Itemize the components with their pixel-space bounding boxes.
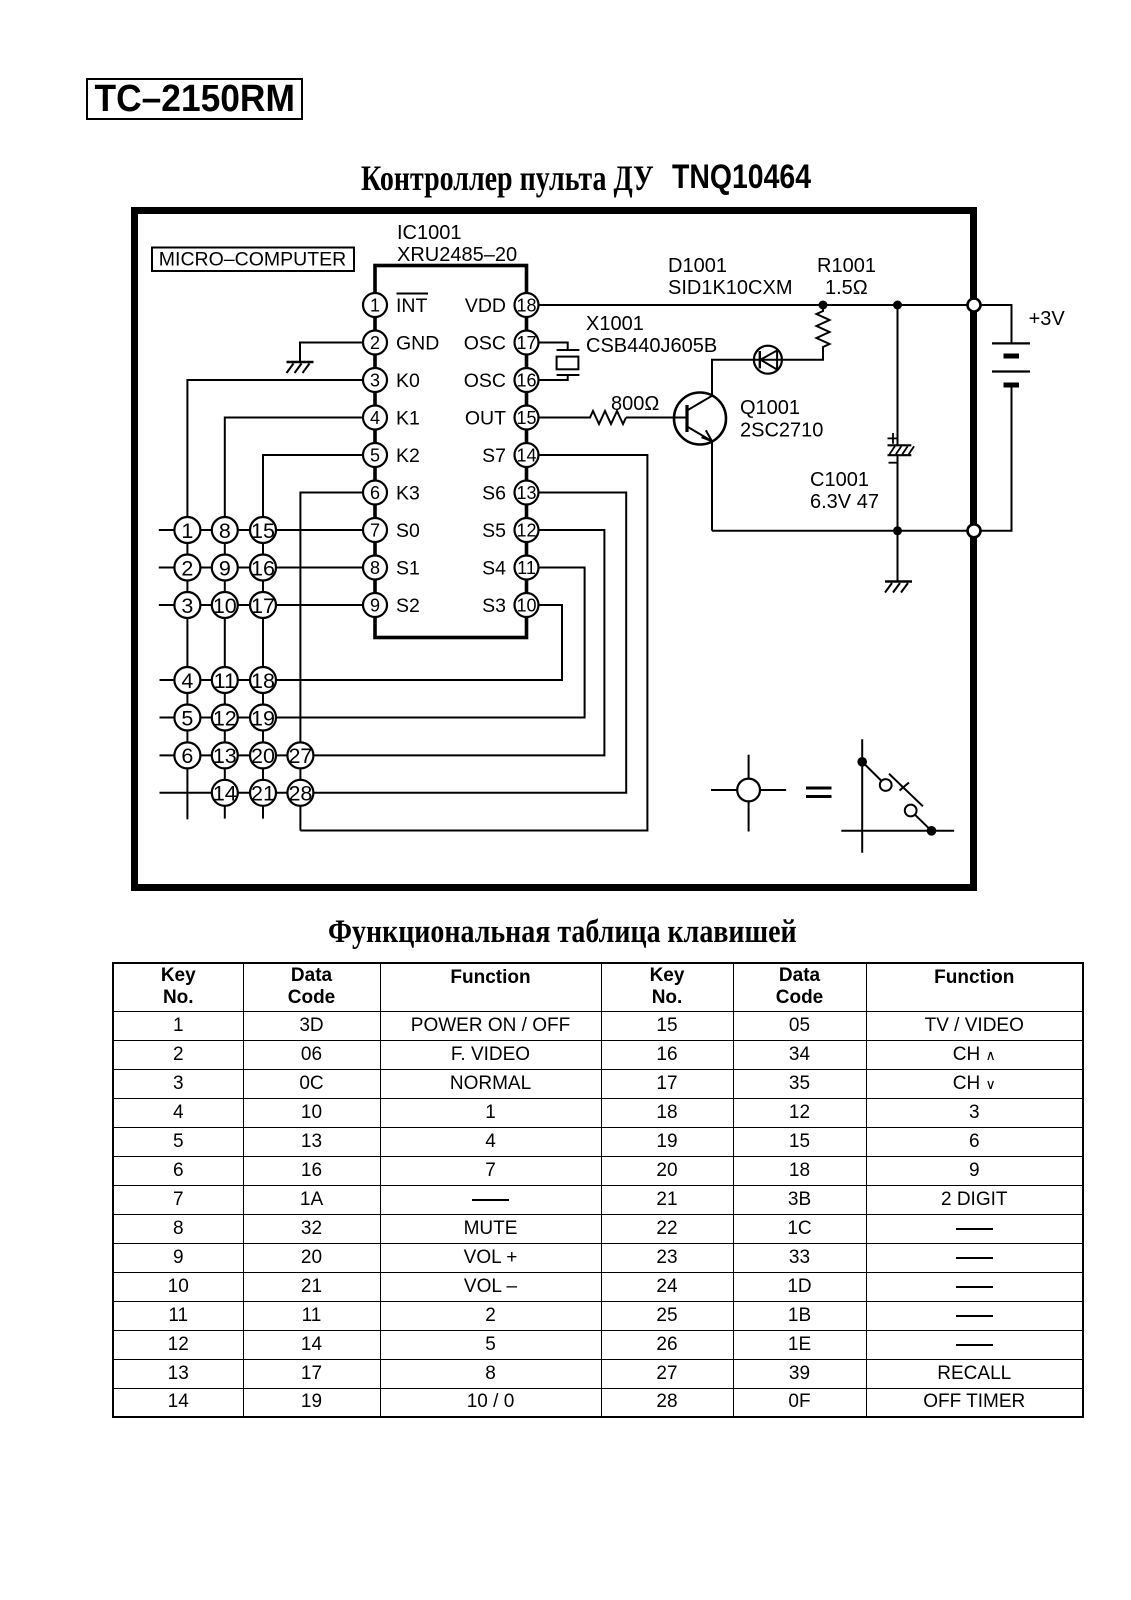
key 2 (174, 555, 200, 581)
svg-text:27: 27 (288, 744, 312, 768)
schematic outer border (135, 211, 974, 888)
junction node bottom rail (893, 526, 902, 535)
svg-text:12: 12 (213, 706, 237, 730)
wire pin2 GND to ground (300, 343, 364, 362)
pin label OUT (465, 408, 506, 430)
transistor Q1001 (674, 393, 726, 445)
svg-text:11: 11 (214, 669, 236, 693)
wire Q1001 emitter down (711, 441, 713, 531)
label IC1001 XRU2485-20 (397, 222, 517, 266)
key 14 (212, 780, 238, 806)
key 10 (212, 592, 238, 618)
ground bottom (885, 582, 912, 593)
svg-text:OSC: OSC (464, 333, 506, 355)
pin 10 (S3) (515, 593, 539, 617)
pin label S7 (482, 445, 506, 467)
wire S3 key row 4 (160, 605, 563, 680)
svg-text:1.5Ω: 1.5Ω (825, 277, 868, 299)
pin label OSC (464, 333, 506, 355)
wire S0 key row 1 (159, 529, 364, 531)
wire pin16 to X1001 (539, 375, 568, 380)
MICRO-COMPUTER label box (152, 248, 354, 272)
page title (361, 157, 738, 199)
wire S6 key row 7 (160, 493, 627, 793)
label Q1001 2SC2710 (740, 397, 823, 442)
pin label K3 (396, 483, 420, 505)
svg-text:5: 5 (370, 446, 380, 466)
svg-text:5: 5 (181, 706, 193, 730)
svg-text:10: 10 (516, 596, 536, 616)
model number box TC-2150RM (86, 78, 303, 120)
svg-text:3: 3 (370, 371, 380, 391)
svg-text:X1001: X1001 (586, 313, 644, 335)
key 18 (250, 667, 276, 693)
key 3 (174, 592, 200, 618)
svg-text:S5: S5 (482, 520, 506, 542)
key 17 (250, 592, 276, 618)
key 4 (174, 667, 200, 693)
pin 11 (S4) (515, 556, 539, 580)
label X1001 CSB440J605B (586, 313, 717, 357)
key 6 (174, 742, 200, 768)
svg-text:S7: S7 (482, 445, 506, 467)
svg-text:1: 1 (370, 296, 380, 316)
svg-text:8: 8 (219, 519, 231, 543)
wire S7 bottom row (300, 455, 647, 831)
svg-text:13: 13 (516, 483, 536, 503)
wire K0 / key column 1 (187, 380, 364, 819)
pin label S6 (482, 483, 506, 505)
key 20 (250, 742, 276, 768)
legend switch: S line (841, 830, 954, 832)
pin label K0 (396, 370, 420, 392)
pin label S5 (482, 520, 506, 542)
svg-text:17: 17 (251, 594, 275, 618)
svg-text:C1001: C1001 (810, 469, 869, 491)
pin label S1 (396, 558, 420, 580)
key 13 (212, 742, 238, 768)
pin 13 (S6) (515, 481, 539, 505)
key 15 (250, 517, 276, 543)
svg-text:2: 2 (370, 333, 380, 353)
wire C1001 bottom lead (897, 455, 899, 531)
svg-text:8: 8 (370, 558, 380, 578)
pin 12 (S5) (515, 518, 539, 542)
IC IC1001 body (375, 266, 527, 638)
svg-text:14: 14 (516, 446, 536, 466)
svg-text:28: 28 (288, 782, 312, 806)
wire S4 key row 5 (160, 568, 585, 718)
svg-text:CSB440J605B: CSB440J605B (586, 335, 717, 357)
capacitor C1001 (888, 433, 915, 463)
wire bottom rail (712, 530, 968, 532)
svg-text:19: 19 (251, 706, 275, 730)
table heading (328, 914, 881, 951)
svg-text:SID1K10CXM: SID1K10CXM (668, 277, 793, 299)
wire terminal to battery plus (981, 305, 1012, 342)
key 11 (212, 667, 238, 693)
svg-text:K1: K1 (396, 408, 420, 430)
svg-text:K3: K3 (396, 483, 420, 505)
svg-text:21: 21 (251, 782, 275, 806)
svg-text:15: 15 (516, 408, 536, 428)
label D1001 SID1K10CXM (668, 255, 793, 299)
terminal bottom right (968, 524, 981, 537)
key 1 (174, 517, 200, 543)
resistor R1001 (817, 305, 830, 348)
svg-text:D1001: D1001 (668, 255, 727, 277)
svg-text:6.3V 47: 6.3V 47 (810, 491, 879, 513)
pin label INT (396, 294, 428, 318)
pin 14 (S7) (515, 443, 539, 467)
svg-text:12: 12 (516, 521, 536, 541)
wire VDD rail pin18 to terminal (539, 304, 968, 306)
pin 5 (K2) (363, 443, 387, 467)
battery +3V (992, 343, 1030, 385)
svg-text:MICRO–COMPUTER: MICRO–COMPUTER (159, 249, 346, 271)
pin 4 (K1) (363, 406, 387, 430)
svg-text:15: 15 (251, 519, 275, 543)
svg-text:4: 4 (370, 408, 380, 428)
svg-text:2: 2 (181, 556, 193, 580)
wire 800 ohm to Q1001 base (626, 417, 674, 419)
svg-text:OUT: OUT (465, 408, 506, 430)
pin 2 (GND) (363, 331, 387, 355)
svg-text:R1001: R1001 (817, 255, 876, 277)
key 5 (174, 705, 200, 731)
key 16 (250, 555, 276, 581)
pin 16 (OSC) (515, 368, 539, 392)
svg-text:9: 9 (219, 556, 231, 580)
pin label VDD (465, 295, 506, 317)
wire battery minus to terminal (981, 388, 1012, 531)
legend key circle symbol (711, 755, 786, 832)
svg-text:K0: K0 (396, 370, 420, 392)
key 9 (212, 555, 238, 581)
pin label OSC (464, 370, 506, 392)
svg-text:6: 6 (181, 744, 193, 768)
svg-text:18: 18 (251, 669, 275, 693)
svg-text:+3V: +3V (1029, 308, 1066, 330)
wire R1001 to D1001 (782, 348, 823, 360)
key 27 (287, 742, 313, 768)
legend switch contacts (857, 757, 936, 836)
svg-text:10: 10 (213, 594, 237, 618)
function table (112, 962, 1084, 1418)
svg-text:9: 9 (370, 596, 380, 616)
pin label K1 (396, 408, 420, 430)
legend equals sign (806, 788, 832, 797)
svg-text:17: 17 (516, 333, 536, 353)
svg-text:7: 7 (370, 521, 380, 541)
pin label S0 (396, 520, 420, 542)
svg-text:11: 11 (517, 558, 536, 578)
wire K3 / key column 4 (300, 493, 364, 831)
junction node R1001 top (819, 301, 828, 310)
svg-text:S1: S1 (396, 558, 420, 580)
legend switch: K line (861, 739, 863, 853)
junction node C1001 top (893, 301, 902, 310)
key 8 (212, 517, 238, 543)
pin 6 (K3) (363, 481, 387, 505)
wire K1 / key column 2 (225, 418, 364, 819)
svg-text:K2: K2 (396, 445, 420, 467)
svg-text:1: 1 (181, 519, 193, 543)
svg-text:VDD: VDD (465, 295, 506, 317)
pin 3 (K0) (363, 368, 387, 392)
pin label GND (396, 333, 439, 355)
key 21 (250, 780, 276, 806)
key 28 (287, 780, 313, 806)
wire S1 key row 2 (159, 567, 364, 569)
pin 1 (INT) (363, 293, 387, 317)
pin 17 (OSC) (515, 331, 539, 355)
wire pin17 to X1001 (539, 343, 568, 351)
svg-text:GND: GND (396, 333, 439, 355)
wire S2 key row 3 (159, 604, 364, 606)
svg-text:16: 16 (251, 556, 275, 580)
svg-text:OSC: OSC (464, 370, 506, 392)
terminal top right (968, 299, 981, 312)
wire C1001 top lead (897, 305, 899, 445)
wire to bottom ground (897, 531, 899, 582)
svg-text:INT: INT (396, 295, 428, 317)
svg-text:S4: S4 (482, 558, 506, 580)
pin 8 (S1) (363, 556, 387, 580)
svg-text:S6: S6 (482, 483, 506, 505)
key 19 (250, 705, 276, 731)
resistor 800 ohm (588, 411, 627, 424)
svg-text:20: 20 (251, 744, 275, 768)
svg-text:S3: S3 (482, 595, 506, 617)
pin label S2 (396, 595, 420, 617)
ground near pin 2 (287, 362, 314, 373)
svg-text:S2: S2 (396, 595, 420, 617)
pin label S4 (482, 558, 506, 580)
svg-text:6: 6 (370, 483, 380, 503)
pin 18 (VDD) (515, 293, 539, 317)
wire K2 / key column 3 (263, 455, 364, 819)
svg-text:XRU2485–20: XRU2485–20 (397, 244, 517, 266)
pin label S3 (482, 595, 506, 617)
svg-text:4: 4 (181, 669, 193, 693)
wire S5 key row 6 (160, 530, 605, 755)
svg-text:14: 14 (213, 782, 237, 806)
svg-text:13: 13 (213, 744, 237, 768)
wire OUT pin15 to 800 ohm (539, 417, 588, 419)
svg-text:S0: S0 (396, 520, 420, 542)
crystal X1001 (557, 350, 580, 375)
label R1001 1.5 ohm (817, 255, 876, 299)
svg-text:IC1001: IC1001 (397, 222, 462, 244)
label C1001 6.3V 47 (810, 469, 879, 513)
svg-text:Q1001: Q1001 (740, 397, 800, 419)
LED D1001 (754, 346, 782, 374)
pin 9 (S2) (363, 593, 387, 617)
wire D1001 to Q1001 collector (712, 360, 754, 396)
pin 15 (OUT) (515, 406, 539, 430)
pin 7 (S0) (363, 518, 387, 542)
svg-text:3: 3 (181, 594, 193, 618)
svg-text:2SC2710: 2SC2710 (740, 420, 823, 442)
key 12 (212, 705, 238, 731)
svg-text:16: 16 (516, 371, 536, 391)
svg-text:18: 18 (516, 296, 536, 316)
pin label K2 (396, 445, 420, 467)
